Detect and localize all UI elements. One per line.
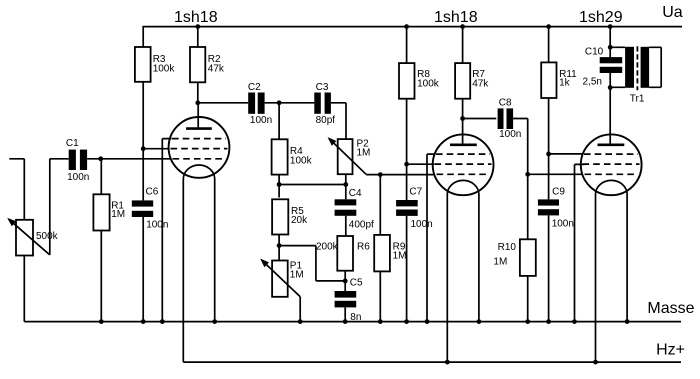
svg-text:C1: C1 xyxy=(66,138,79,149)
svg-text:2,5n: 2,5n xyxy=(583,76,602,87)
svg-text:R10: R10 xyxy=(498,242,517,253)
svg-text:1M: 1M xyxy=(393,251,407,262)
svg-text:1k: 1k xyxy=(559,77,571,88)
svg-text:80pf: 80pf xyxy=(316,115,336,126)
svg-text:400pf: 400pf xyxy=(349,220,374,231)
svg-text:1M: 1M xyxy=(290,270,304,281)
svg-text:20k: 20k xyxy=(291,215,308,226)
svg-text:100k: 100k xyxy=(153,63,176,74)
svg-text:C10: C10 xyxy=(585,47,604,58)
svg-text:1sh29: 1sh29 xyxy=(579,9,623,26)
svg-text:100n: 100n xyxy=(552,218,574,229)
svg-text:200k: 200k xyxy=(316,242,339,253)
svg-text:47k: 47k xyxy=(472,78,489,89)
svg-text:1sh18: 1sh18 xyxy=(174,9,218,26)
svg-text:C2: C2 xyxy=(248,82,261,93)
svg-text:C8: C8 xyxy=(499,97,512,108)
svg-text:1M: 1M xyxy=(493,256,507,267)
svg-text:1sh18: 1sh18 xyxy=(434,9,478,26)
svg-text:Masse: Masse xyxy=(647,300,694,317)
svg-text:Tr1: Tr1 xyxy=(630,94,645,105)
svg-text:C9: C9 xyxy=(552,186,565,197)
svg-text:100n: 100n xyxy=(499,129,521,140)
svg-text:500k: 500k xyxy=(36,231,59,242)
svg-text:C3: C3 xyxy=(316,82,329,93)
svg-text:C4: C4 xyxy=(349,188,362,199)
svg-text:Hz+: Hz+ xyxy=(656,341,685,358)
svg-text:100n: 100n xyxy=(146,219,168,230)
svg-text:Ua: Ua xyxy=(662,4,683,21)
svg-text:100n: 100n xyxy=(67,172,89,183)
svg-text:47k: 47k xyxy=(208,63,225,74)
svg-text:100n: 100n xyxy=(250,115,272,126)
svg-text:1M: 1M xyxy=(111,209,125,220)
svg-text:C6: C6 xyxy=(146,186,159,197)
svg-text:100k: 100k xyxy=(417,78,440,89)
svg-text:100k: 100k xyxy=(290,155,313,166)
svg-text:100n: 100n xyxy=(411,219,433,230)
svg-text:R6: R6 xyxy=(357,242,370,253)
svg-text:C5: C5 xyxy=(350,278,363,289)
svg-text:1M: 1M xyxy=(357,148,371,159)
svg-text:C7: C7 xyxy=(409,187,422,198)
svg-text:8n: 8n xyxy=(350,312,361,323)
